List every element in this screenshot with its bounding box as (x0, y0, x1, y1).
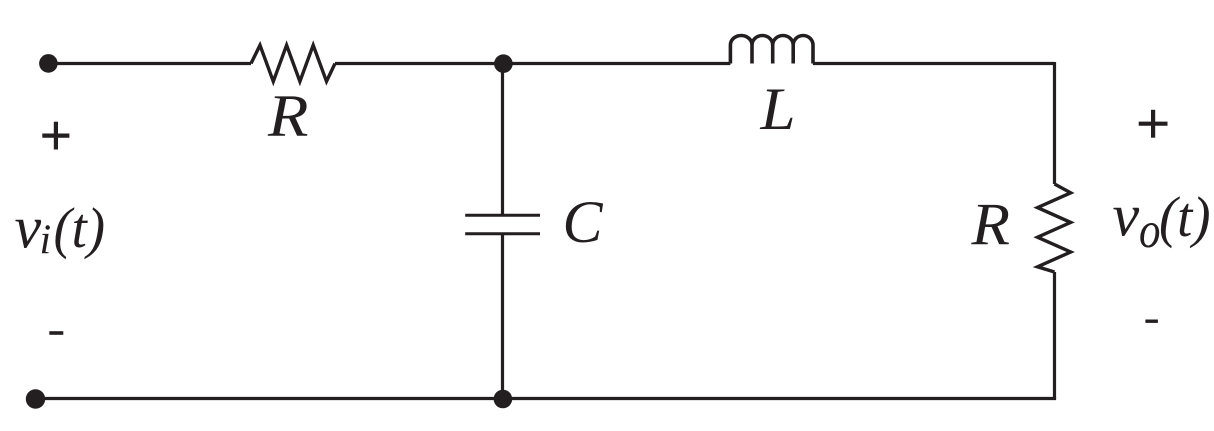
svg-text:(t): (t) (54, 197, 106, 260)
resistor R (vertical, load) (1038, 184, 1071, 272)
svg-text:(t): (t) (1159, 186, 1211, 249)
inductor L (4 humps) (730, 35, 813, 63)
node dot: bottom-left terminal (26, 389, 45, 408)
svg-text:L: L (759, 76, 795, 142)
svg-text:R: R (970, 192, 1010, 258)
minus sign (input) (49, 331, 63, 335)
wire top-left: input terminal to resistor R (46, 62, 251, 65)
label v_i(t) input voltage (15, 194, 106, 263)
svg-text:C: C (563, 189, 604, 255)
svg-text:v: v (1113, 183, 1140, 249)
capacitor C top plate (465, 214, 540, 217)
node dot: bottom junction (494, 390, 513, 409)
wire bottom: bottom-right corner to bottom junction (503, 397, 1056, 400)
node dot: input terminal top-left (39, 54, 58, 73)
wire: load resistor to bottom-right corner (1053, 272, 1056, 399)
minus sign (output) (1145, 320, 1158, 323)
wire: top-right corner down to resistor R (load) (1053, 62, 1056, 184)
wire: inductor L to top-right corner (813, 62, 1055, 65)
resistor R (horizontal, top) (251, 45, 335, 81)
wire: node A to inductor L (503, 62, 730, 65)
wire: node A down to capacitor C top plate (501, 64, 504, 216)
wire: capacitor C bottom plate to bottom junction (501, 234, 504, 399)
svg-text:o: o (1139, 203, 1161, 259)
node A junction dot (top middle) (494, 54, 513, 73)
label v_o(t) output voltage (1113, 183, 1211, 259)
capacitor C bottom plate (465, 232, 540, 235)
svg-text:v: v (15, 194, 42, 260)
wire bottom: bottom junction to bottom-left terminal (34, 397, 503, 400)
wire: resistor R to node A (335, 62, 503, 65)
plus sign (output) (1139, 110, 1168, 138)
svg-text:R: R (267, 83, 309, 149)
svg-text:i: i (40, 218, 52, 264)
plus sign (input) (42, 122, 69, 150)
